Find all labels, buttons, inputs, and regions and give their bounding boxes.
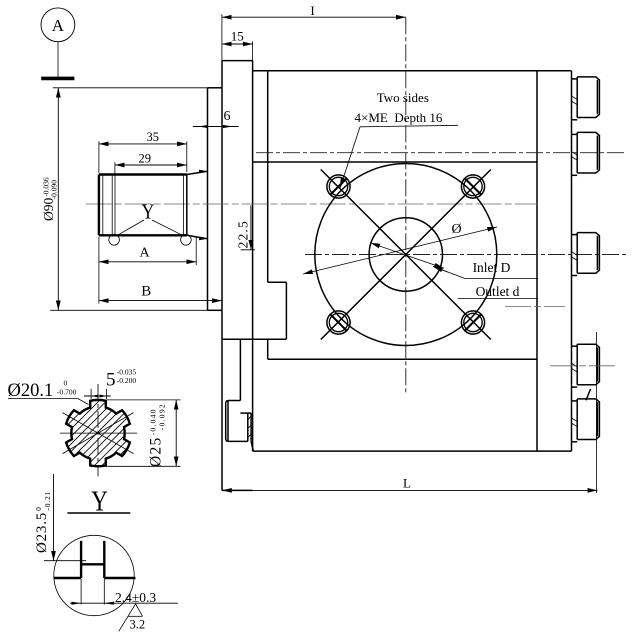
- port 1: [572, 77, 600, 120]
- gear axis lower centerline: [505, 306, 565, 308]
- body inner front line upper: [267, 71, 269, 282]
- gear axis upper centerline: [86, 203, 537, 205]
- svg-text:0: 0: [64, 378, 68, 387]
- svg-text:A: A: [52, 16, 65, 35]
- port 4 centerline: [550, 365, 615, 367]
- svg-text:Two sides: Two sides: [377, 90, 429, 105]
- svg-text:2.4±0.3: 2.4±0.3: [115, 590, 156, 605]
- svg-text:15: 15: [231, 29, 244, 44]
- bolt hole diagonal centerline 2: [321, 170, 491, 340]
- shaft taper top: [187, 171, 208, 174]
- dimension 22.5 line: [241, 206, 255, 250]
- spline shaft section outline: [66, 400, 130, 466]
- bottom port cap: [226, 401, 248, 442]
- detail Y boundary circle: [54, 535, 134, 615]
- dimension Ø90 extension bottom: [50, 309, 207, 311]
- bolt hole diagonal centerline 1: [321, 170, 491, 340]
- port2 centerline across body: [256, 152, 627, 154]
- body bore top line: [253, 161, 537, 163]
- inlet leader: [433, 267, 538, 279]
- dimension I extension left: [221, 14, 223, 60]
- bolt hole top-right: [461, 175, 484, 198]
- svg-text:6: 6: [224, 109, 231, 124]
- flange circle: [315, 164, 497, 346]
- groove profile right wall: [103, 541, 105, 578]
- svg-text:I: I: [310, 3, 314, 18]
- svg-text:Outlet d: Outlet d: [476, 284, 520, 299]
- dimension A line: [99, 261, 196, 263]
- dimension Ø23.5 extension: [44, 560, 86, 562]
- svg-text:Inlet D: Inlet D: [473, 260, 511, 275]
- shaft end extension line down: [98, 237, 100, 304]
- spline tooth axis 150deg: [63, 413, 134, 454]
- pilot boss Ø90: [208, 88, 223, 310]
- leader underline for 4xME: [360, 125, 458, 127]
- svg-text:3.2: 3.2: [130, 618, 146, 632]
- dimension 35 line: [99, 143, 187, 145]
- outlet underline: [458, 298, 538, 300]
- port 2: [572, 132, 600, 175]
- svg-text:-0.700: -0.700: [57, 387, 77, 396]
- drive shaft outline: [99, 175, 187, 236]
- svg-text:Ø20.1: Ø20.1: [8, 381, 54, 401]
- groove profile surface right: [104, 577, 135, 579]
- flange plate: [222, 61, 253, 491]
- dimension B line: [99, 300, 222, 302]
- dimension 2.4 extensions: [80, 579, 82, 605]
- dimension 35 extensions: [98, 141, 100, 173]
- svg-text:Ø90-0.036-0.090: Ø90-0.036-0.090: [41, 177, 59, 221]
- spigot diameter dimension line: [370, 243, 444, 268]
- dimension L extension line: [595, 332, 597, 493]
- bottom port hatched seat: [240, 413, 251, 441]
- Ø20.1 leader underline: [8, 399, 89, 405]
- body bore bottom line: [268, 358, 537, 360]
- svg-text:Ø: Ø: [451, 222, 461, 237]
- spline section centerline vertical: [97, 384, 99, 477]
- bolt hole bottom-right: [461, 311, 484, 334]
- bolt circle diameter dimension line: [303, 227, 497, 274]
- dimension Ø90 line: [57, 88, 59, 310]
- dimension 5 line: [84, 395, 111, 397]
- svg-text:5: 5: [106, 370, 116, 391]
- shaft taper end wedges: [199, 170, 208, 173]
- dimension Ø23.5 line: [53, 474, 55, 561]
- svg-text:4×ME Depth 16: 4×ME Depth 16: [355, 110, 443, 125]
- shaft groove right: [183, 175, 185, 236]
- dimension A extension right: [195, 237, 197, 265]
- spline section centerline horizontal: [60, 432, 137, 434]
- dimension 2.4 line: [70, 602, 178, 604]
- dimension 6 line: [193, 125, 239, 128]
- section indicator A: [41, 8, 75, 42]
- dimension 29 extension: [114, 162, 116, 174]
- dimension Ø25 line: [175, 400, 177, 466]
- groove profile surface left: [54, 577, 81, 579]
- center spigot circle: [369, 218, 442, 291]
- dimension I line: [222, 16, 406, 18]
- shaft end chamfer line: [102, 175, 104, 236]
- view label Y underline: [67, 512, 130, 514]
- main horizontal centerline: [305, 254, 628, 256]
- bolt hole top-left: [327, 175, 350, 198]
- dimension Ø90 extension top: [53, 87, 208, 89]
- svg-text:L: L: [403, 476, 411, 491]
- vertical centerline: [405, 17, 407, 395]
- front inlet port recess: [268, 282, 287, 339]
- dimension 15 line: [222, 43, 253, 45]
- detail Y mark circle right: [181, 235, 192, 246]
- flange bottom edge: [222, 489, 253, 491]
- svg-text:22.5: 22.5: [236, 220, 251, 248]
- groove profile left wall: [80, 541, 82, 578]
- groove profile bottom: [81, 563, 104, 565]
- shaft taper bottom: [187, 235, 208, 238]
- leader arrow to bolt hole: [340, 127, 360, 188]
- surface finish symbol: [119, 604, 143, 632]
- pump body outline: [253, 71, 572, 451]
- bolt hole bottom-left: [327, 311, 350, 334]
- port 4: [572, 344, 600, 387]
- port 3: [572, 233, 600, 276]
- section cut thick bar: [41, 77, 74, 81]
- dimension 5 extensions: [90, 389, 92, 399]
- dimension Ø25 extensions: [104, 399, 181, 401]
- spline hatching: [58, 347, 138, 517]
- spline tooth axis 30deg: [63, 413, 134, 454]
- section leader line: [57, 42, 59, 77]
- spline end face: [186, 175, 188, 236]
- bottom port cap to body corner: [251, 441, 253, 451]
- dimension L line: [222, 489, 597, 491]
- dimension 15 extension right: [252, 42, 254, 61]
- dimension 29 line: [115, 164, 187, 166]
- detail Y mark leaders: [117, 220, 145, 236]
- shaft groove left: [111, 175, 113, 236]
- svg-text:29: 29: [139, 152, 152, 166]
- svg-text:-0.200: -0.200: [117, 376, 137, 385]
- bottom port boss shoulder line: [222, 338, 286, 340]
- svg-text:A: A: [139, 246, 150, 261]
- svg-text:35: 35: [147, 130, 160, 144]
- body inner front line lower: [267, 339, 269, 359]
- svg-text:B: B: [141, 284, 151, 300]
- port4-port5 connector: [586, 389, 591, 400]
- detail Y mark circle left: [109, 235, 120, 246]
- bottom port boss vertical: [239, 339, 241, 400]
- port 5: [572, 399, 600, 442]
